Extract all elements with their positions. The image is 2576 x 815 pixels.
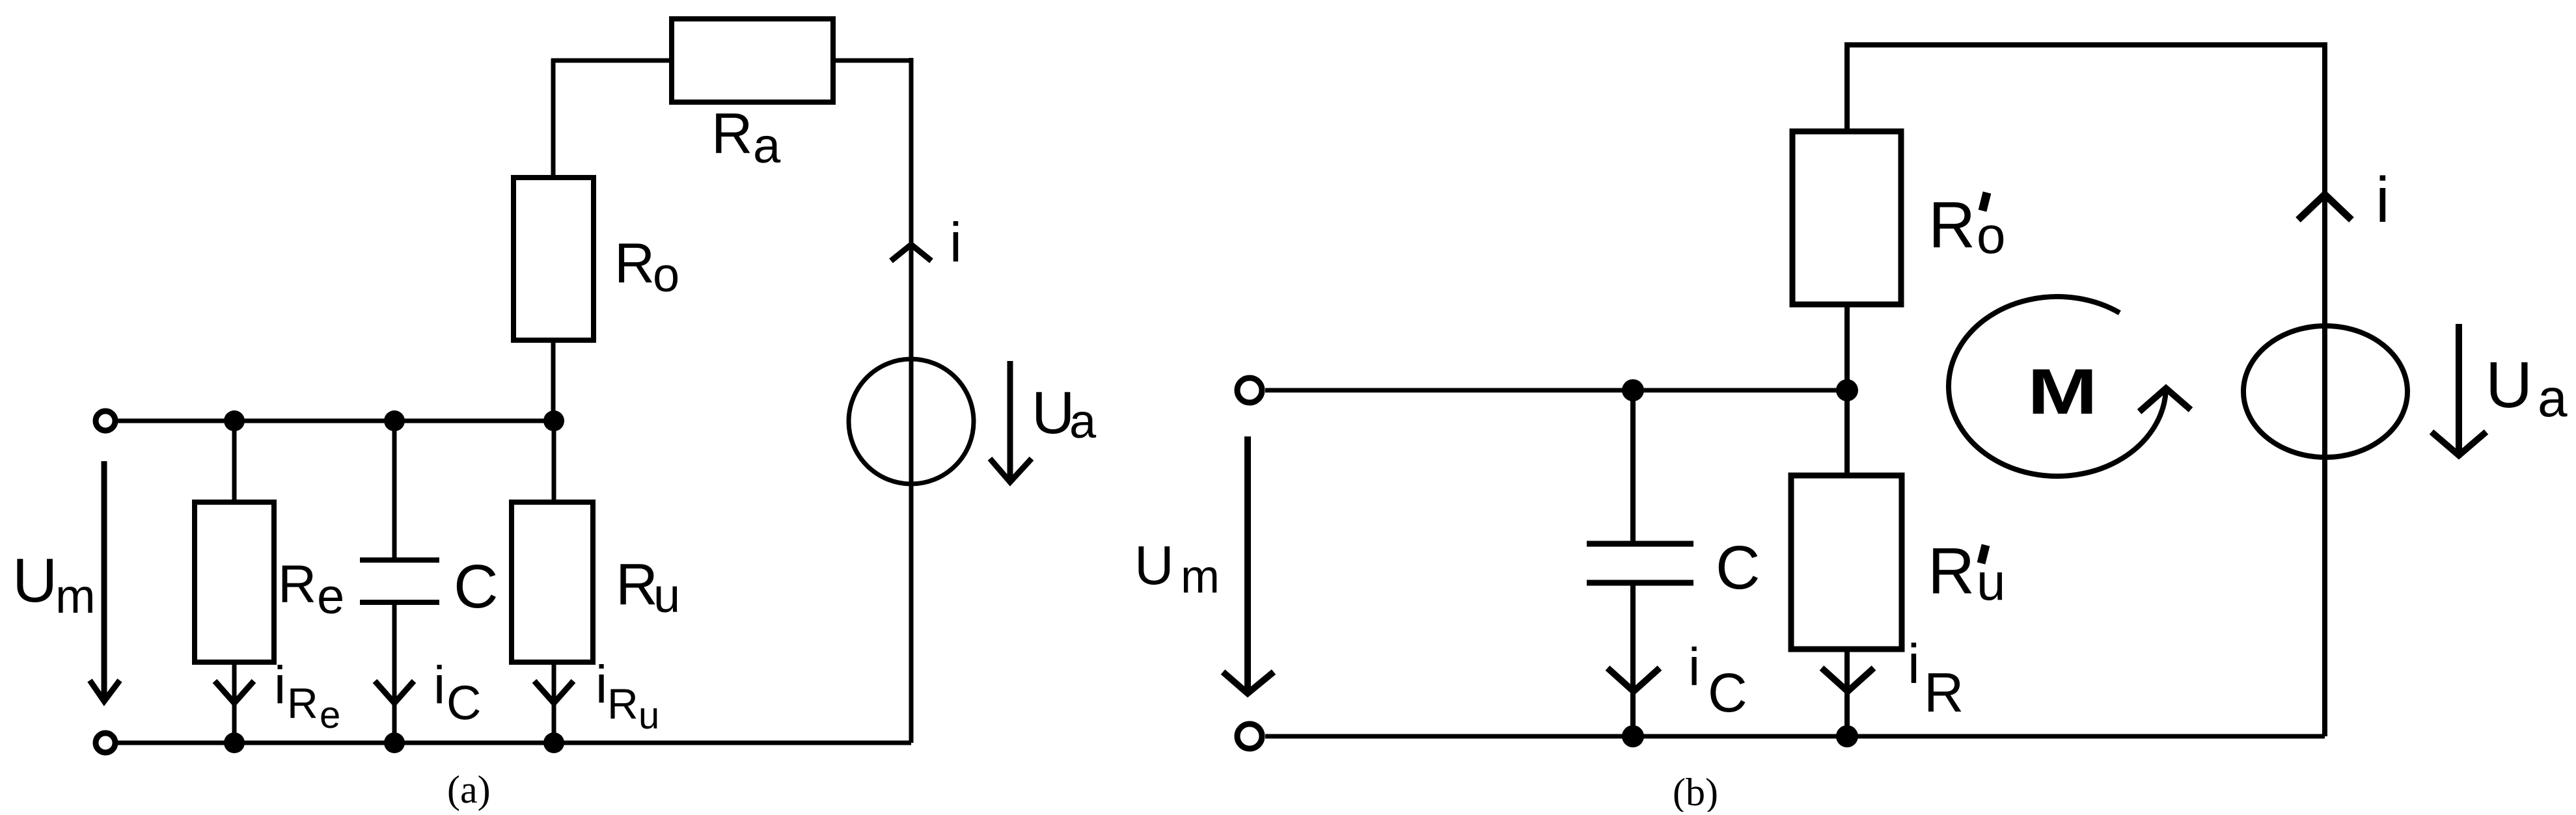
node B1 [224,732,245,753]
node B3 [543,732,564,753]
svg-text:a: a [1069,394,1097,448]
wire right vertical (a) [909,58,914,743]
wire right vertical (b) [2322,42,2327,736]
current source (b) [2243,326,2407,457]
node C2 [1836,379,1858,401]
label R'o [1928,189,2006,264]
label iRu [596,655,659,737]
svg-text:(a): (a) [447,768,491,811]
wire C to bottom (b) [1630,583,1636,736]
resistor Ra [672,19,833,102]
svg-text:e: e [317,569,344,624]
label iRe [274,656,340,736]
mutual coupling loop M [1949,297,2166,476]
label R'u [1928,535,2006,611]
wire middle node line (a) [115,419,554,423]
svg-text:i: i [433,656,445,715]
node D2 [1836,725,1858,747]
svg-text:R: R [1928,189,1975,261]
resistor R'o [1792,131,1901,304]
svg-text:u: u [653,568,680,622]
arrow Ua (b) [2432,324,2486,455]
svg-text:M: M [2027,356,2098,428]
label Um (a) [12,546,96,623]
svg-text:i: i [950,212,962,274]
wire Ro to node [551,340,556,421]
label iR (b) [1908,634,1964,724]
arrow iRu [534,681,573,703]
arrow iC [375,681,414,703]
resistor Ru [512,502,593,662]
node A2 [384,410,405,431]
svg-text:R: R [1924,662,1964,724]
wire node to capacitor C (b) [1630,390,1636,544]
svg-text:C: C [1708,662,1747,723]
node D1 [1622,725,1644,747]
arrow Um (a) [90,461,120,701]
svg-text:u: u [1977,553,2006,611]
resistor R'u [1791,475,1902,649]
arrow i (a) [891,245,931,261]
wire node to Re [232,421,237,502]
svg-text:i: i [2376,164,2390,235]
wire C to bottom [392,602,397,743]
wire R'o top lead [1844,42,1850,131]
svg-text:C: C [1716,533,1761,602]
wire node to Ru [552,421,556,502]
svg-text:u: u [638,695,659,737]
wire bottom horizontal (a) [115,741,911,745]
wire R'o to node [1844,304,1850,390]
label Ua (b) [2486,349,2568,428]
svg-text:C: C [454,552,499,621]
arrow iR (b) [1822,668,1874,691]
capacitor C plates (b) [1587,544,1693,583]
svg-text:i: i [596,655,607,714]
svg-text:C: C [446,676,481,730]
svg-text:R: R [616,552,658,617]
node A1 [224,410,245,431]
label Ra [711,101,781,174]
wire left vertical (a) [551,59,556,180]
svg-text:R: R [278,555,316,614]
arrow i (b) [2298,194,2351,220]
svg-text:o: o [653,248,679,302]
wire top horizontal (a) [551,59,911,63]
wire R'u to bottom [1844,649,1850,736]
label Ro [614,232,679,302]
capacitor C plates [360,560,439,602]
svg-text:U: U [1032,380,1075,446]
wire Re to bottom [232,662,237,743]
svg-text:(b): (b) [1673,771,1718,812]
wire top horizontal (b) [1844,42,2325,47]
label Ua (a) [1032,380,1097,448]
svg-text:a: a [753,118,781,174]
svg-text:R: R [287,679,318,727]
svg-text:i: i [1688,637,1700,697]
label Um (b) [1134,535,1220,603]
svg-text:m: m [55,569,96,623]
node C1 [1622,379,1644,401]
svg-text:U: U [1134,535,1174,596]
wire node to capacitor C [392,421,397,560]
wire top node line (b) [1265,388,1847,393]
terminal bottom-left (a) [96,733,115,753]
svg-text:e: e [320,694,340,736]
svg-text:o: o [1977,206,2006,264]
svg-text:R: R [614,232,655,295]
label Re [278,555,344,624]
svg-text:R: R [1928,535,1975,608]
wire node to R'u [1844,390,1850,475]
svg-text:m: m [1181,551,1220,603]
label iC (b) [1688,637,1747,723]
svg-text:U: U [2486,349,2532,421]
resistor Ro [514,178,594,340]
terminal top-left (a) [96,411,115,431]
svg-text:R: R [607,680,638,728]
label Ru [616,552,680,622]
arrow iC (b) [1608,668,1660,691]
node B2 [384,732,405,753]
label iC [433,656,481,730]
svg-text:R: R [711,101,753,165]
current source (a) [849,359,974,484]
svg-text:i: i [274,656,286,715]
arrow Ua (a) [990,361,1032,482]
arrow Um (b) [1223,436,1274,693]
terminal bottom-left (b) [1237,724,1262,749]
terminal top-left (b) [1237,378,1262,403]
arrow iRe [215,681,254,703]
svg-text:U: U [12,546,57,615]
wire Ru to bottom [552,662,556,743]
svg-text:i: i [1908,634,1920,695]
resistor Re [195,502,274,662]
arrow M loop [2139,388,2191,412]
wire bottom horizontal (b) [1265,734,2325,739]
svg-text:a: a [2538,369,2568,428]
node A3 [543,410,564,431]
